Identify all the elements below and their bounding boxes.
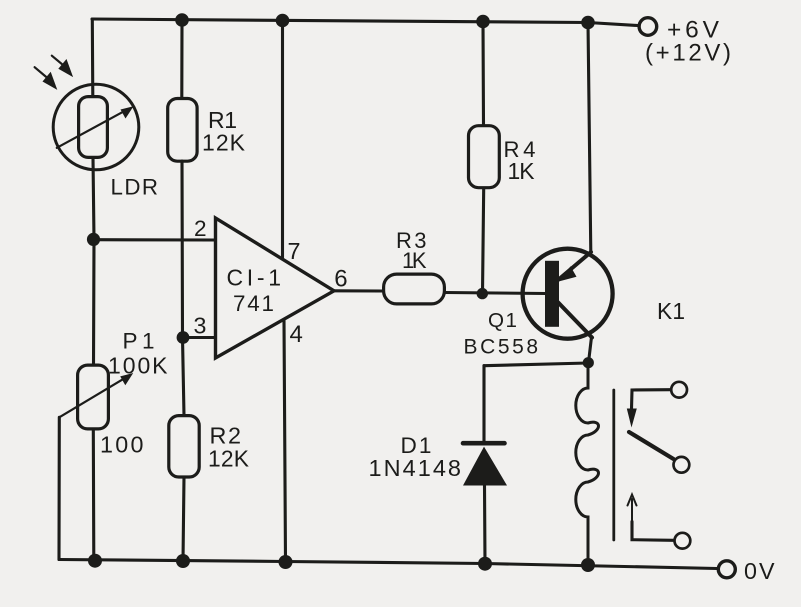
svg-text:6: 6 bbox=[334, 266, 349, 293]
LDR body bbox=[79, 97, 108, 158]
node bottom rail P1 bbox=[88, 554, 102, 568]
diode D1 triangle bbox=[463, 447, 507, 486]
relay core line bbox=[612, 390, 615, 540]
potentiometer P1 body bbox=[78, 365, 109, 429]
node base R4 bbox=[477, 288, 488, 299]
node top rail R4 bbox=[476, 15, 490, 29]
svg-text:100: 100 bbox=[100, 432, 145, 458]
svg-text:12K: 12K bbox=[208, 446, 251, 472]
svg-text:3: 3 bbox=[194, 313, 208, 339]
transistor Q1 base bar bbox=[545, 261, 559, 327]
wire R3 to base bbox=[445, 293, 546, 294]
svg-text:K1: K1 bbox=[657, 298, 687, 324]
terminal 0V bbox=[718, 561, 735, 578]
relay K1 coil bbox=[576, 363, 599, 565]
terminal +6V bbox=[639, 18, 657, 36]
transistor Q1 circle bbox=[523, 249, 613, 339]
svg-text:4: 4 bbox=[290, 321, 305, 348]
svg-text:Q1: Q1 bbox=[488, 309, 519, 332]
wire pin 4 to bottom rail bbox=[284, 321, 286, 562]
wire bottom 0V rail bbox=[59, 560, 717, 569]
wire LDR bottom to node bbox=[93, 158, 94, 240]
svg-text:(+12V): (+12V) bbox=[645, 40, 733, 67]
wire D1 to bottom rail bbox=[483, 486, 487, 564]
wire LDR branch top bbox=[91, 19, 95, 97]
wire R2 bottom bbox=[183, 477, 184, 561]
wire collector node to D1 bbox=[484, 363, 588, 366]
svg-text:1K: 1K bbox=[508, 158, 537, 184]
wire op-amp output pin 6 bbox=[334, 289, 384, 292]
wire collector down bbox=[589, 337, 592, 363]
wire R1 bottom to pin3 node bbox=[180, 161, 184, 338]
wire pin3 node to op-amp bbox=[183, 336, 215, 339]
relay top contact bbox=[671, 382, 687, 398]
wire down to D1 bbox=[482, 366, 485, 442]
svg-text:CI-1: CI-1 bbox=[227, 265, 283, 291]
svg-text:1K: 1K bbox=[402, 248, 428, 273]
svg-text:BC558: BC558 bbox=[464, 336, 540, 359]
wire R4 bottom to base node bbox=[483, 188, 484, 294]
wire node down to P1 bbox=[92, 240, 96, 367]
resistor R2 bbox=[183, 338, 185, 416]
LDR variable arrow bbox=[57, 106, 134, 148]
LDR circle bbox=[53, 84, 139, 170]
node LDR pin2 bbox=[87, 233, 100, 246]
light arrow 2 bbox=[52, 56, 73, 77]
resistor R3 bbox=[384, 274, 445, 304]
op-amp CI-1 bbox=[216, 218, 335, 358]
resistor R1 bbox=[180, 20, 183, 98]
node bottom rail coil bbox=[581, 558, 595, 572]
transistor Q1 collector bbox=[558, 302, 592, 337]
resistor R4 bbox=[481, 22, 485, 127]
wire P1 bottom bbox=[92, 429, 96, 560]
node pin3 bbox=[177, 331, 190, 344]
svg-text:7: 7 bbox=[288, 238, 303, 264]
node bottom rail R2 bbox=[176, 554, 190, 568]
svg-text:0V: 0V bbox=[744, 558, 776, 584]
svg-text:741: 741 bbox=[233, 291, 276, 316]
wire pin 7 to top rail bbox=[281, 21, 284, 258]
wire node to op-amp pin 2 bbox=[94, 238, 215, 241]
light arrow 1 bbox=[35, 67, 58, 90]
node collector coil bbox=[583, 357, 594, 368]
svg-text:1N4148: 1N4148 bbox=[369, 455, 463, 481]
wire top supply rail bbox=[92, 19, 638, 26]
wire P1 wiper to ground rail bbox=[57, 417, 60, 559]
node bottom rail D1 bbox=[478, 557, 492, 571]
relay bottom contact bbox=[675, 533, 691, 549]
svg-text:100K: 100K bbox=[108, 353, 169, 379]
node top rail emitter bbox=[581, 16, 595, 30]
svg-text:12K: 12K bbox=[202, 130, 247, 156]
diode D1 cathode bar bbox=[463, 441, 505, 446]
relay lever bbox=[629, 432, 674, 459]
node top rail R1 bbox=[175, 13, 189, 27]
transistor Q1 emitter bbox=[558, 252, 591, 280]
potentiometer P1 wiper arrow bbox=[59, 373, 133, 417]
node top rail pin7 bbox=[276, 14, 290, 28]
relay middle contact bbox=[674, 457, 690, 473]
node bottom rail pin4 bbox=[279, 555, 293, 569]
svg-text:LDR: LDR bbox=[111, 175, 160, 200]
wire emitter to top rail bbox=[588, 23, 591, 253]
svg-text:2: 2 bbox=[194, 216, 208, 241]
